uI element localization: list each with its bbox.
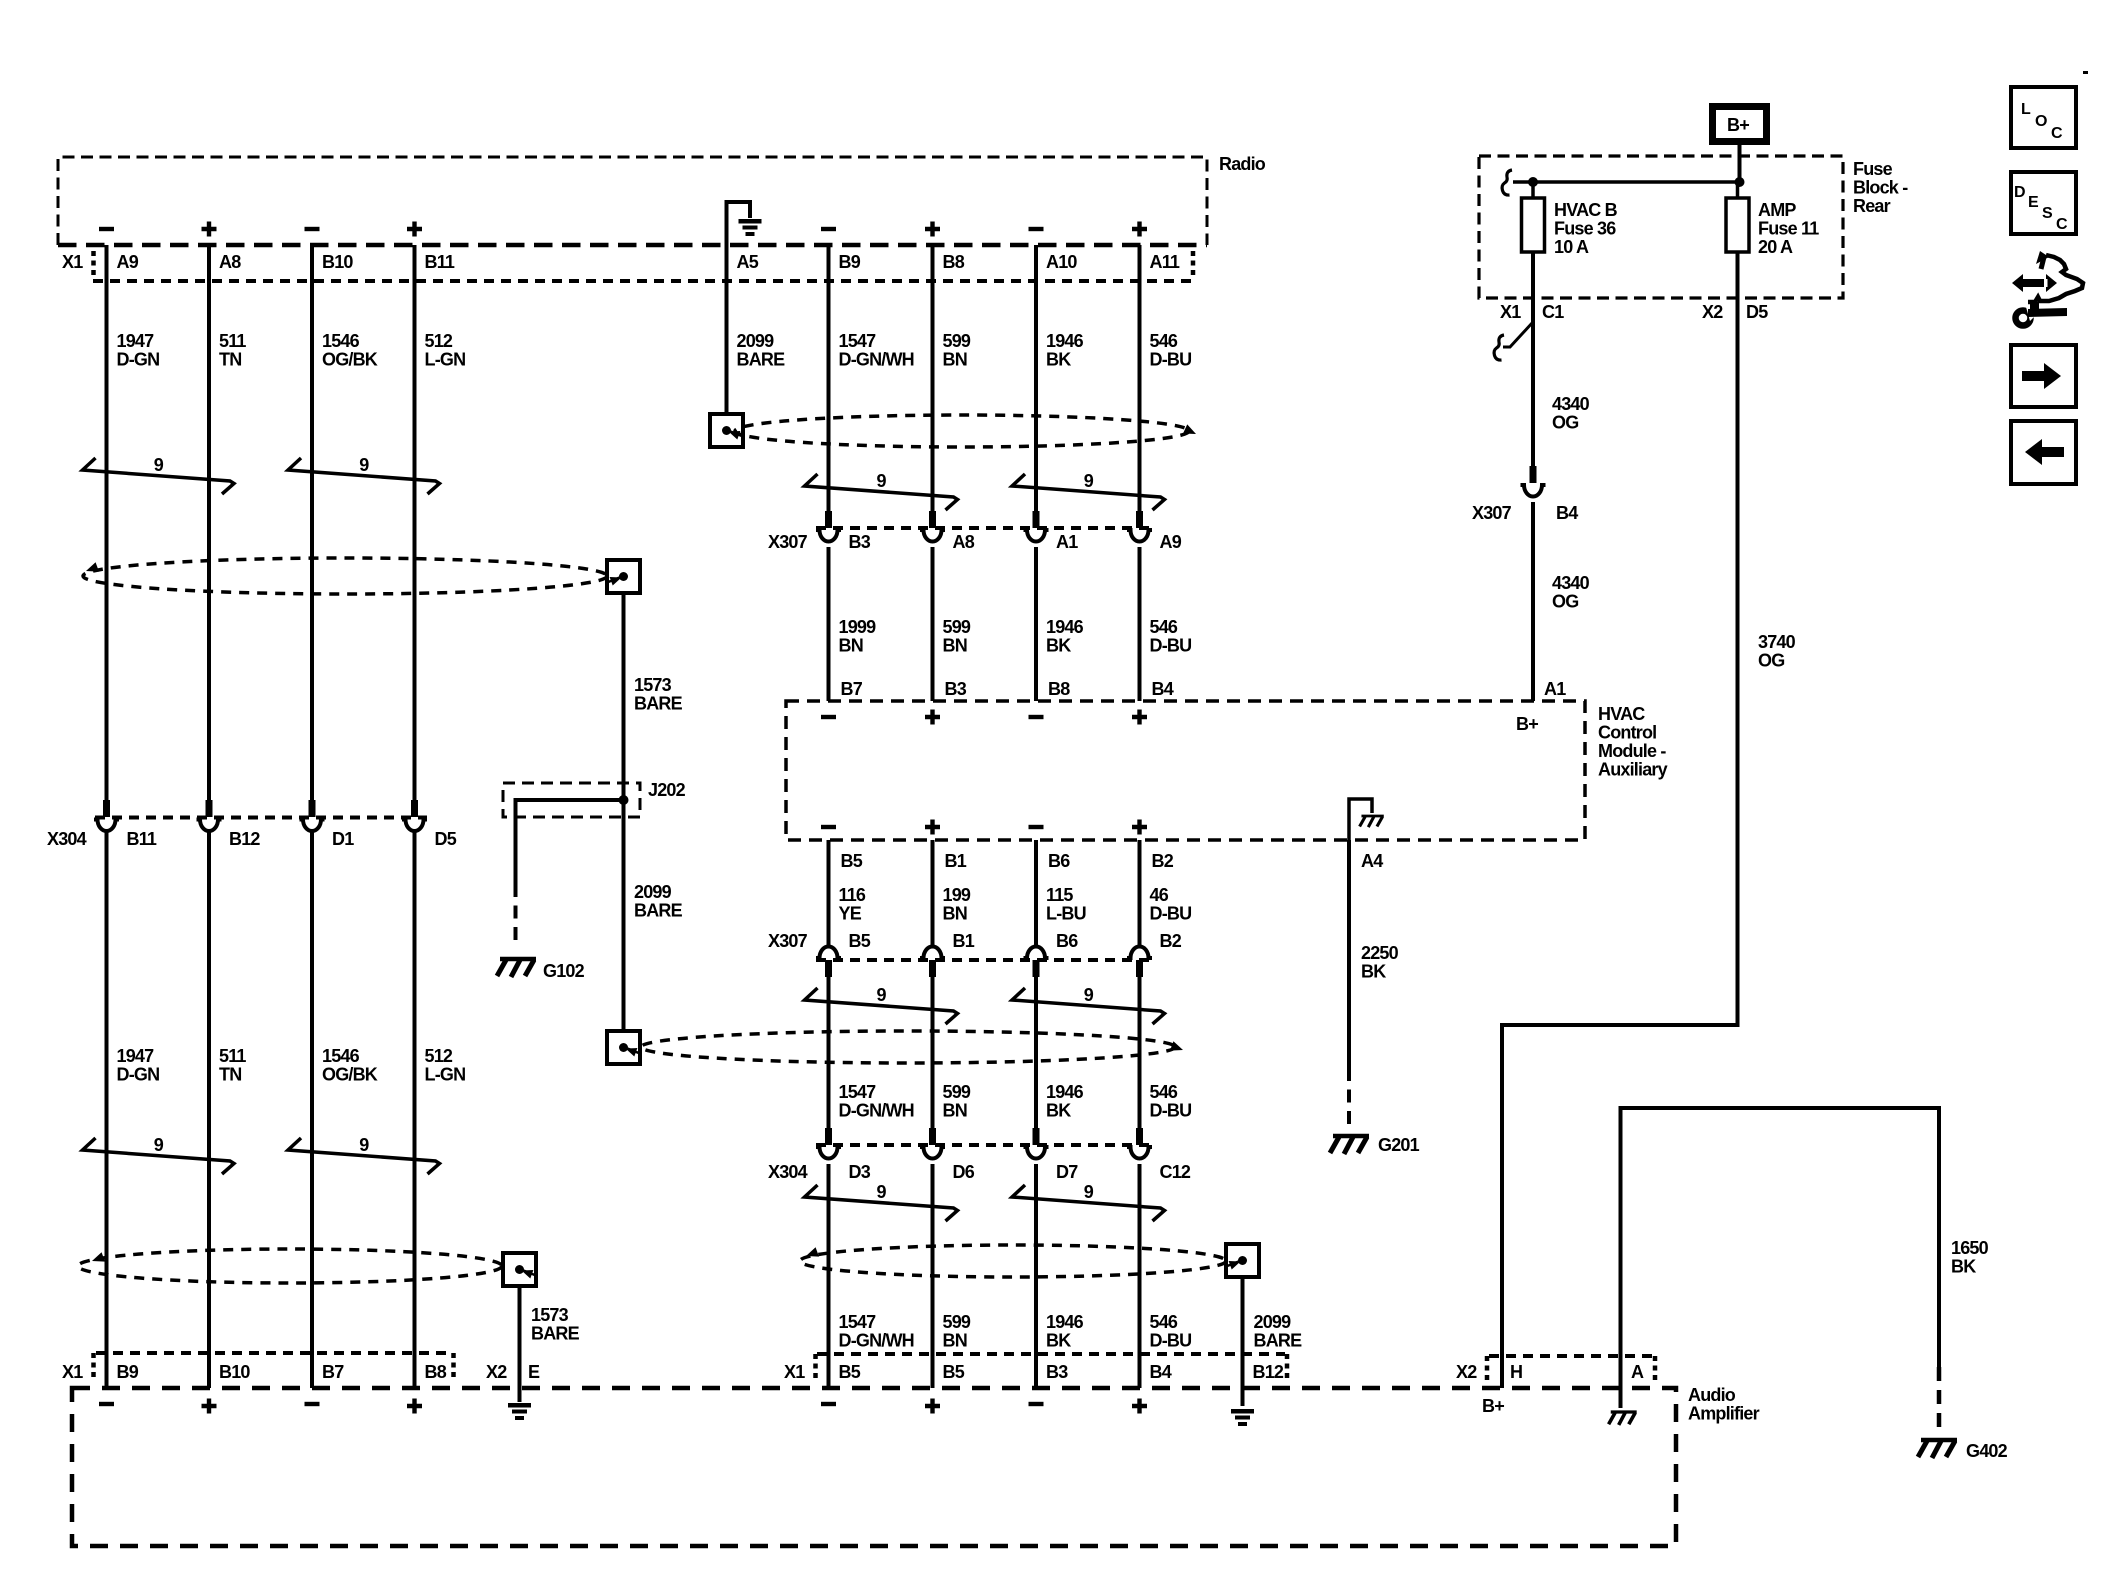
wire 46 D-BU (HVAC B2 to X307) xyxy=(1138,840,1142,948)
svg-text:A9: A9 xyxy=(117,252,139,272)
svg-text:A10: A10 xyxy=(1046,252,1077,272)
HVAC polarity - (B6) xyxy=(1029,825,1044,829)
twisted pair marker 9 (115/46) xyxy=(1012,985,1165,1024)
HVAC polarity - (B5) xyxy=(821,825,836,829)
HVAC polarity + (B2) xyxy=(1132,820,1147,835)
svg-text:599BN: 599BN xyxy=(943,331,971,370)
svg-text:D: D xyxy=(2014,184,2025,201)
svg-text:X304: X304 xyxy=(768,1162,808,1182)
amplifier X1 connector row line (left) xyxy=(96,1351,451,1355)
shield ellipse (radio right wires) xyxy=(735,415,1189,447)
X307 female terminal A9 xyxy=(1127,530,1152,542)
svg-text:X307: X307 xyxy=(1472,503,1512,523)
svg-text:9: 9 xyxy=(877,1182,887,1202)
X304 female terminal D3 xyxy=(816,1147,841,1159)
X307 male terminal B5 (middle) xyxy=(825,960,832,977)
svg-text:J202: J202 xyxy=(648,780,686,800)
amp X2 left tick xyxy=(1485,1356,1490,1380)
amp polarity + (B5) xyxy=(925,1399,940,1414)
svg-text:A: A xyxy=(1631,1362,1644,1382)
X1 row right tick xyxy=(1191,251,1196,275)
svg-text:B6: B6 xyxy=(1048,851,1070,871)
fuse AMP Fuse 11 20A xyxy=(1726,198,1749,252)
wire to HVAC B fuse xyxy=(1531,182,1535,198)
svg-text:A5: A5 xyxy=(737,252,759,272)
fuse HVAC B Fuse 36 10A xyxy=(1522,198,1545,252)
svg-text:X307: X307 xyxy=(768,931,808,951)
amplifier X2 connector row line xyxy=(1489,1354,1653,1358)
radio polarity - (A10) xyxy=(1029,227,1044,231)
amp polarity - (B5) xyxy=(821,1402,836,1406)
twisted pair marker 9 (lower 1946/546) xyxy=(1012,1182,1165,1221)
svg-text:D6: D6 xyxy=(953,1162,975,1182)
wire 2099 BARE (J202 to shield box) xyxy=(622,800,626,1031)
wire 4340 OG (X307 to HVAC A1) xyxy=(1531,502,1535,701)
svg-text:B7: B7 xyxy=(322,1362,344,1382)
X307 female terminal B4 xyxy=(1521,485,1546,497)
svg-text:B8: B8 xyxy=(425,1362,447,1382)
wire 599 BN (X307 to X304) xyxy=(931,977,935,1128)
icon forward arrow button xyxy=(2011,345,2076,407)
wire 1547 D-GN/WH (radio to X307) xyxy=(827,245,831,511)
X307 male terminal B1 (middle) xyxy=(929,960,936,977)
wire 1573 BARE (shield drain to amplifier E) xyxy=(518,1287,522,1402)
X307 male terminal B2 (middle) xyxy=(1136,960,1143,977)
wire branch to clip (X1 C1) xyxy=(1503,322,1533,347)
X304 male terminal C12 xyxy=(1136,1128,1143,1145)
X307 female terminal B3 xyxy=(816,530,841,542)
svg-text:A1: A1 xyxy=(1544,679,1566,699)
svg-text:S: S xyxy=(2042,205,2053,222)
radio polarity - (A9) xyxy=(99,227,114,231)
Audio Amplifier box xyxy=(72,1388,1676,1546)
X307 female terminal B6 (middle) xyxy=(1024,947,1049,958)
radio internal ground (pin A5) xyxy=(727,202,751,246)
svg-text:G402: G402 xyxy=(1966,1441,2008,1461)
radio polarity - (B9) xyxy=(821,227,836,231)
svg-text:B3: B3 xyxy=(945,679,967,699)
X304 male terminal B11 xyxy=(103,800,110,817)
shield ellipse left arrow (lower) xyxy=(90,1252,105,1266)
svg-text:9: 9 xyxy=(1084,985,1094,1005)
svg-text:E: E xyxy=(2028,194,2039,211)
shield termination box (left speakers) xyxy=(607,560,640,593)
svg-text:A1: A1 xyxy=(1056,532,1078,552)
svg-text:B5: B5 xyxy=(849,931,871,951)
wire 3740 OG (fuse 11 to amplifier B+) xyxy=(1502,252,1738,1388)
X304 female terminal B11 xyxy=(94,820,119,832)
amp polarity + (B8) xyxy=(407,1399,422,1414)
svg-text:B2: B2 xyxy=(1152,851,1174,871)
svg-text:9: 9 xyxy=(1084,1182,1094,1202)
fuse block internal bus xyxy=(1513,180,1740,184)
svg-text:C: C xyxy=(2051,125,2063,142)
svg-text:A9: A9 xyxy=(1160,532,1182,552)
X304 female terminal D5 xyxy=(402,820,427,832)
wire 2099 BARE (radio A5 shield drain) xyxy=(725,245,729,414)
svg-text:B9: B9 xyxy=(117,1362,139,1382)
svg-text:G102: G102 xyxy=(543,961,585,981)
svg-text:A8: A8 xyxy=(219,252,241,272)
svg-text:B10: B10 xyxy=(219,1362,250,1382)
HVAC polarity + (B3) xyxy=(925,710,940,725)
X304 female terminal D6 xyxy=(920,1147,945,1159)
wire 511 TN (radio A8 to X304) xyxy=(207,245,211,800)
svg-text:1947D-GN: 1947D-GN xyxy=(117,331,160,370)
junction dot (AMP fuse tap) xyxy=(1735,177,1745,187)
shield ellipse (left front speaker wires) xyxy=(83,558,607,594)
svg-text:9: 9 xyxy=(877,985,887,1005)
wire 1999 BN (X307 to HVAC B7) xyxy=(827,547,831,701)
wire 599 BN (radio to X307) xyxy=(931,245,935,511)
svg-text:G201: G201 xyxy=(1378,1135,1420,1155)
radio polarity + (B8) xyxy=(925,222,940,237)
ground G201 xyxy=(1330,1136,1369,1154)
svg-text:C1: C1 xyxy=(1542,302,1564,322)
svg-text:X2: X2 xyxy=(486,1362,507,1382)
svg-text:D5: D5 xyxy=(435,829,457,849)
page mark dot xyxy=(2083,71,2088,74)
radio connector X1 row line xyxy=(93,279,1193,283)
svg-text:E: E xyxy=(528,1362,540,1382)
amp X1 mid right tick xyxy=(1285,1354,1290,1378)
svg-text:B+: B+ xyxy=(1482,1396,1504,1416)
wire 599 BN (X307 to HVAC B3) xyxy=(931,547,935,701)
svg-text:X307: X307 xyxy=(768,532,808,552)
wire 1947 D-GN (X304 to amplifier B9) xyxy=(105,831,109,1388)
twisted pair marker 9 (1946/546) xyxy=(1012,471,1165,510)
X304 female terminal D1 xyxy=(300,820,325,832)
amplifier internal ground (pin A) xyxy=(1619,1388,1623,1408)
svg-text:C: C xyxy=(2056,216,2068,233)
svg-text:B12: B12 xyxy=(1253,1362,1284,1382)
svg-text:B5: B5 xyxy=(841,851,863,871)
svg-text:B10: B10 xyxy=(322,252,353,272)
amp polarity - (B7) xyxy=(305,1402,320,1406)
radio polarity + (A11) xyxy=(1132,222,1147,237)
X304 male terminal D6 xyxy=(929,1128,936,1145)
X304 connector row line (left) xyxy=(95,816,427,820)
svg-text:9: 9 xyxy=(1084,471,1094,491)
svg-text:X304: X304 xyxy=(47,829,87,849)
X307 male terminal B4 xyxy=(1530,466,1537,483)
wire 1650 BK (amplifier A to G402) xyxy=(1621,1108,1940,1388)
twisted pair marker 9 (lower 1546/512) xyxy=(288,1135,440,1174)
svg-text:B+: B+ xyxy=(1516,714,1538,734)
X304 female terminal B12 xyxy=(197,820,222,832)
svg-text:X2: X2 xyxy=(1456,1362,1477,1382)
svg-text:9: 9 xyxy=(359,455,369,475)
wire 1947 D-GN (radio A9 to X304) xyxy=(105,245,109,800)
svg-text:B4: B4 xyxy=(1556,503,1578,523)
X307 female terminal B1 (middle) xyxy=(920,947,945,958)
X304 connector row line (middle) xyxy=(816,1143,1152,1147)
radio polarity + (B11) xyxy=(407,222,422,237)
X307 female terminal B2 (middle) xyxy=(1127,947,1152,958)
wire 1946 BK (X307 to HVAC B8) xyxy=(1034,547,1038,701)
Radio component box xyxy=(58,157,1207,245)
wire 1573 BARE (shield drain, upper) xyxy=(622,593,626,800)
svg-text:B12: B12 xyxy=(229,829,260,849)
twisted pair marker 9 (lower 1947/511) xyxy=(83,1135,235,1174)
X304 female terminal C12 xyxy=(1127,1147,1152,1159)
wire splice J202 horizontal xyxy=(516,798,624,802)
X304 male terminal D3 xyxy=(825,1128,832,1145)
wire 115 L-BU (HVAC B6 to X307) xyxy=(1034,840,1038,948)
bus left clip symbol xyxy=(1502,170,1512,195)
wire 1546 OG/BK (X304 to amplifier B7) xyxy=(310,831,314,1388)
svg-text:1947D-GN: 1947D-GN xyxy=(117,1046,160,1085)
shield ellipse (amp right wires) xyxy=(800,1245,1226,1277)
X307 male terminal B6 (middle) xyxy=(1033,960,1040,977)
wire 1946 BK (X307 to X304) xyxy=(1034,977,1038,1128)
amp polarity + (B10) xyxy=(202,1399,217,1414)
amp X2 right tick xyxy=(1653,1356,1658,1380)
wire 1546 OG/BK (radio B10 to X304) xyxy=(310,245,314,800)
clip symbol below X1 C1 xyxy=(1494,335,1504,360)
svg-text:D5: D5 xyxy=(1746,302,1768,322)
svg-text:B3: B3 xyxy=(849,532,871,552)
junction dot J202 xyxy=(619,795,629,805)
X307 female terminal B5 (middle) xyxy=(816,947,841,958)
wire 4340 OG (fuse 36 output) xyxy=(1531,252,1535,466)
wire 1946 BK (X304 to amplifier B3) xyxy=(1034,1164,1038,1388)
twisted pair marker 9 (1547/599) xyxy=(805,471,958,510)
ground G102 xyxy=(497,959,536,977)
X307 female terminal A1 xyxy=(1024,530,1049,542)
svg-text:L: L xyxy=(2021,101,2031,118)
svg-text:O: O xyxy=(2035,113,2047,130)
svg-text:X1: X1 xyxy=(62,1362,83,1382)
amplifier internal ground (B12) xyxy=(1231,1409,1254,1426)
wire 546 D-BU (X307 to HVAC B4) xyxy=(1138,547,1142,701)
svg-text:B5: B5 xyxy=(943,1362,965,1382)
amplifier internal ground (E) xyxy=(508,1403,531,1420)
twisted pair marker 9 (1546/512) xyxy=(288,455,440,494)
radio polarity + (A8) xyxy=(202,222,217,237)
svg-text:599BN: 599BN xyxy=(943,617,971,656)
amp polarity - (B3) xyxy=(1029,1402,1044,1406)
wire 1547 D-GN/WH (X304 to amplifier B5) xyxy=(827,1164,831,1388)
svg-text:A11: A11 xyxy=(1150,252,1180,272)
wire 2250 BK (HVAC A4 to G201) xyxy=(1347,840,1351,1068)
wire 1547 D-GN/WH (X307 to X304) xyxy=(827,977,831,1128)
Fuse Block - Rear box xyxy=(1479,156,1843,298)
HVAC polarity + (B4) xyxy=(1132,710,1147,725)
X1 row left tick xyxy=(91,251,96,275)
shield termination box (amp left drain) xyxy=(503,1253,536,1286)
svg-text:199BN: 199BN xyxy=(943,885,971,924)
X304 male terminal B12 xyxy=(206,800,213,817)
shield termination box (2099 drain to amp) xyxy=(1226,1244,1259,1277)
X307 connector row line (top) xyxy=(816,526,1152,530)
wire 546 D-BU (X304 to amplifier B4) xyxy=(1138,1164,1142,1388)
X304 male terminal D1 xyxy=(309,800,316,817)
junction dot (HVAC B fuse tap) xyxy=(1528,177,1538,187)
twisted pair marker 9 (lower 1547/599) xyxy=(805,1182,958,1221)
wire 2099 BARE (J202 to G102 branch) xyxy=(514,798,518,884)
svg-text:B+: B+ xyxy=(1727,115,1749,135)
wire 511 TN (X304 to amplifier B10) xyxy=(207,831,211,1388)
X307 male terminal A8 xyxy=(929,511,936,528)
icon service/replace glyph xyxy=(2012,251,2083,326)
amp X1 right tick xyxy=(451,1353,456,1377)
wire 116 YE (HVAC B5 to X307) xyxy=(827,840,831,948)
svg-text:B4: B4 xyxy=(1150,1362,1172,1382)
svg-text:9: 9 xyxy=(877,471,887,491)
wire 199 BN (HVAC B1 to X307) xyxy=(931,840,935,948)
wire 546 D-BU (X307 to X304) xyxy=(1138,977,1142,1128)
X307 male terminal A9 xyxy=(1136,511,1143,528)
X304 male terminal D7 xyxy=(1033,1128,1040,1145)
X307 male terminal A1 xyxy=(1033,511,1040,528)
icon back arrow button xyxy=(2011,421,2076,484)
svg-text:A8: A8 xyxy=(953,532,975,552)
svg-text:C12: C12 xyxy=(1160,1162,1191,1182)
amp polarity - (B9) xyxy=(99,1402,114,1406)
svg-text:B5: B5 xyxy=(839,1362,861,1382)
svg-text:B1: B1 xyxy=(953,931,975,951)
wire 546 D-BU (radio to X307) xyxy=(1138,245,1142,511)
wire 599 BN (X304 to amplifier B5) xyxy=(931,1164,935,1388)
X307 female terminal A8 xyxy=(920,530,945,542)
svg-text:D1: D1 xyxy=(332,829,354,849)
amp X1 left tick xyxy=(91,1353,96,1377)
ground G402 xyxy=(1918,1440,1957,1458)
B+ power feed box xyxy=(1713,107,1767,142)
wire 2099 BARE (shield drain to amplifier B12) xyxy=(1241,1277,1245,1406)
icon LOC button xyxy=(2011,87,2076,148)
X307 connector row line (middle) xyxy=(816,958,1152,962)
svg-text:A4: A4 xyxy=(1361,851,1383,871)
icon DESC button xyxy=(2011,172,2076,234)
shield termination box (A5 drain) xyxy=(710,414,743,447)
svg-text:B1: B1 xyxy=(945,851,967,871)
svg-text:9: 9 xyxy=(359,1135,369,1155)
svg-text:H: H xyxy=(1510,1362,1522,1382)
svg-text:599BN: 599BN xyxy=(943,1312,971,1351)
radio polarity - (B10) xyxy=(305,227,320,231)
wire B+ feed into fuse block xyxy=(1738,144,1742,182)
shield ellipse left arrow xyxy=(84,562,99,576)
svg-text:B8: B8 xyxy=(1048,679,1070,699)
svg-text:X1: X1 xyxy=(1500,302,1521,322)
svg-text:X1: X1 xyxy=(784,1362,805,1382)
svg-text:Radio: Radio xyxy=(1219,154,1266,174)
wire to AMP fuse xyxy=(1736,182,1740,198)
svg-text:B7: B7 xyxy=(841,679,863,699)
svg-text:B3: B3 xyxy=(1046,1362,1068,1382)
svg-text:B2: B2 xyxy=(1160,931,1182,951)
HVAC Control Module - Auxiliary box xyxy=(786,701,1585,840)
svg-text:B11: B11 xyxy=(127,829,157,849)
amplifier X1 connector row line (middle) xyxy=(817,1352,1285,1356)
shield ellipse right arrow (HVAC) xyxy=(1170,1041,1185,1055)
svg-text:X1: X1 xyxy=(62,252,83,272)
wire 512 L-GN (X304 to amplifier B8) xyxy=(413,831,417,1388)
HVAC internal ground (pin A4) xyxy=(1349,799,1372,840)
twisted pair marker 9 (116/199) xyxy=(805,985,958,1024)
amp X1 mid left tick xyxy=(813,1354,818,1378)
shield ellipse left arrow (amp right) xyxy=(804,1247,819,1261)
svg-text:D3: D3 xyxy=(849,1162,871,1182)
svg-text:9: 9 xyxy=(154,1135,164,1155)
HVAC polarity + (B1) xyxy=(925,820,940,835)
svg-text:B9: B9 xyxy=(839,252,861,272)
shield termination box (HVAC wires) xyxy=(607,1031,640,1064)
splice J202 box xyxy=(503,783,640,817)
twisted pair marker 9 (1947/511) xyxy=(83,455,235,494)
shield ellipse (HVAC wires) xyxy=(641,1031,1175,1063)
svg-text:B11: B11 xyxy=(425,252,455,272)
shield ellipse (amp left wires) xyxy=(78,1249,502,1283)
HVAC polarity - (B7) xyxy=(821,715,836,719)
HVAC polarity - (B8) xyxy=(1029,715,1044,719)
wire 1946 BK (radio to X307) xyxy=(1034,245,1038,511)
svg-text:599BN: 599BN xyxy=(943,1082,971,1121)
svg-text:B4: B4 xyxy=(1152,679,1174,699)
X304 female terminal D7 xyxy=(1024,1147,1049,1159)
X304 male terminal D5 xyxy=(411,800,418,817)
svg-text:B8: B8 xyxy=(943,252,965,272)
svg-text:D7: D7 xyxy=(1056,1162,1078,1182)
shield ellipse right arrow (radio) xyxy=(1183,424,1198,438)
wire 512 L-GN (radio B11 to X304) xyxy=(413,245,417,800)
X307 male terminal B3 xyxy=(825,511,832,528)
svg-text:B6: B6 xyxy=(1056,931,1078,951)
svg-text:X2: X2 xyxy=(1702,302,1723,322)
svg-text:9: 9 xyxy=(154,455,164,475)
amp polarity + (B4) xyxy=(1132,1399,1147,1414)
